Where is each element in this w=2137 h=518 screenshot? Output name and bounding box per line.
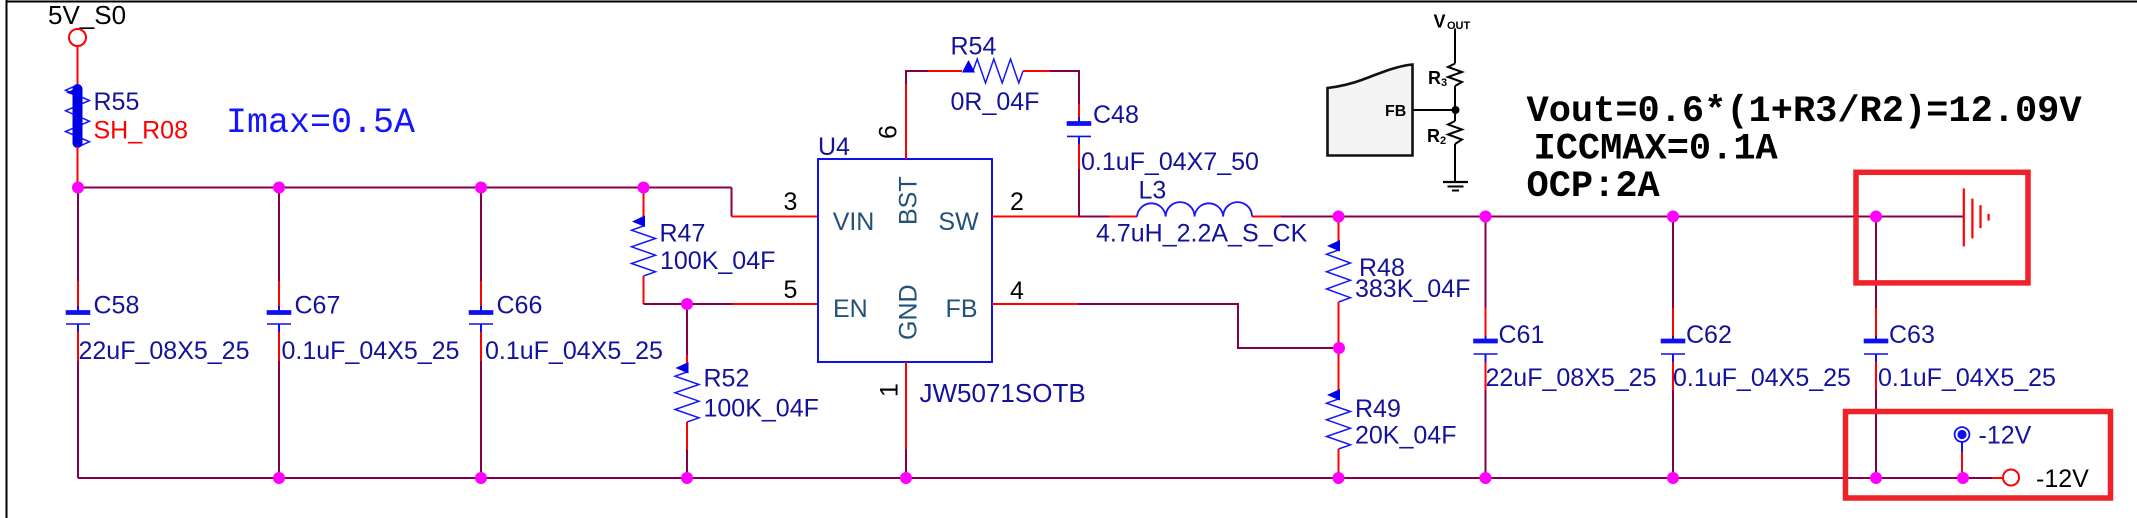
- svg-text:V: V: [1434, 12, 1446, 32]
- svg-text:0.1uF_04X5_25: 0.1uF_04X5_25: [485, 337, 663, 365]
- svg-text:383K_04F: 383K_04F: [1355, 275, 1470, 303]
- svg-text:5: 5: [784, 276, 798, 304]
- svg-text:22uF_08X5_25: 22uF_08X5_25: [1486, 364, 1657, 392]
- svg-text:2: 2: [1440, 135, 1446, 147]
- FB feedback illustration block: [1328, 12, 1471, 191]
- resistor R48: [1327, 217, 1471, 349]
- svg-text:C67: C67: [295, 292, 341, 320]
- resistor R2 (illustration): [1448, 121, 1462, 144]
- wire BST: [906, 71, 962, 159]
- svg-text:0R_04F: 0R_04F: [951, 88, 1040, 116]
- svg-text:Imax=0.5A: Imax=0.5A: [226, 103, 415, 143]
- junction GND pin bottom bus: [900, 472, 912, 484]
- junction R48 SW rail: [1333, 211, 1345, 223]
- svg-text:R55: R55: [94, 88, 140, 116]
- wire: [1050, 71, 1079, 104]
- svg-text:0.1uF_04X5_25: 0.1uF_04X5_25: [1878, 364, 2056, 392]
- svg-text:C61: C61: [1499, 321, 1545, 349]
- junction C61 SW rail: [1480, 211, 1492, 223]
- svg-text:ICCMAX=0.1A: ICCMAX=0.1A: [1534, 129, 1779, 171]
- wire FB: [992, 304, 1339, 348]
- svg-text:Vout=0.6*(1+R3/R2)=12.09V: Vout=0.6*(1+R3/R2)=12.09V: [1527, 91, 2083, 133]
- svg-text:VIN: VIN: [833, 208, 875, 236]
- resistor R54: [951, 33, 1051, 117]
- wire: [1252, 216, 1282, 218]
- svg-text:5V_S0: 5V_S0: [48, 0, 126, 30]
- svg-text:4.7uH_2.2A_S_CK: 4.7uH_2.2A_S_CK: [1096, 220, 1308, 248]
- wire: [731, 188, 733, 217]
- capacitor C62: [1661, 217, 1851, 479]
- wire GND pin1: [905, 362, 907, 449]
- svg-text:FB: FB: [1385, 103, 1406, 120]
- svg-text:R47: R47: [660, 220, 706, 248]
- svg-text:22uF_08X5_25: 22uF_08X5_25: [79, 337, 250, 365]
- svg-text:0.1uF_04X7_50: 0.1uF_04X7_50: [1081, 148, 1259, 176]
- svg-text:R54: R54: [951, 33, 997, 61]
- svg-text:GND: GND: [895, 284, 923, 340]
- red highlight box (-12V ports): [1846, 412, 2111, 499]
- svg-text:C63: C63: [1889, 321, 1935, 349]
- wire SW: [992, 216, 1137, 218]
- junction R52 bottom bus: [681, 472, 693, 484]
- port -12V open circle: [2003, 470, 2019, 486]
- svg-text:C66: C66: [497, 292, 543, 320]
- IC U4 JW5071SOTB: [818, 133, 1086, 408]
- svg-text:100K_04F: 100K_04F: [704, 395, 819, 423]
- svg-text:R: R: [1427, 126, 1440, 146]
- svg-text:6: 6: [875, 125, 903, 139]
- svg-text:3: 3: [784, 188, 798, 216]
- capacitor C63: [1864, 217, 2056, 479]
- capacitor C61: [1473, 217, 1656, 479]
- svg-text:SW: SW: [938, 208, 979, 236]
- inductor L3: [1096, 177, 1308, 248]
- text formula: [1527, 91, 2083, 208]
- wire bottom bus: [78, 477, 1992, 479]
- junction R47 top bus: [638, 182, 650, 194]
- svg-text:L3: L3: [1139, 177, 1167, 205]
- junction R55/C58 top bus: [72, 182, 84, 194]
- svg-text:2: 2: [1010, 188, 1024, 216]
- svg-text:U4: U4: [818, 133, 850, 161]
- junction -12V power bottom bus: [1957, 472, 1969, 484]
- svg-text:1: 1: [876, 383, 904, 397]
- svg-text:4: 4: [1010, 277, 1024, 305]
- svg-text:0.1uF_04X5_25: 0.1uF_04X5_25: [1673, 364, 1851, 392]
- wire: [1992, 477, 2003, 479]
- resistor R3 (illustration): [1448, 64, 1462, 87]
- svg-text:-12V: -12V: [1979, 422, 2032, 450]
- svg-text:BST: BST: [895, 176, 923, 225]
- svg-text:20K_04F: 20K_04F: [1355, 422, 1456, 450]
- wire: [77, 46, 79, 85]
- junction C63 bottom bus: [1870, 472, 1882, 484]
- ground: [1443, 181, 1468, 183]
- junction C61 bottom bus: [1480, 472, 1492, 484]
- capacitor C48: [1067, 101, 1259, 217]
- wire: [77, 147, 79, 188]
- red highlight box (ground): [1856, 172, 2028, 283]
- svg-text:SH_R08: SH_R08: [94, 117, 189, 145]
- svg-text:FB: FB: [946, 295, 978, 323]
- ground bars (sideways): [1964, 188, 1989, 246]
- svg-text:OUT: OUT: [1447, 20, 1471, 32]
- junction FB node R48/R49: [1333, 342, 1345, 354]
- svg-text:3: 3: [1441, 77, 1447, 89]
- svg-text:0.1uF_04X5_25: 0.1uF_04X5_25: [282, 337, 460, 365]
- junction R52 EN wire: [681, 298, 693, 310]
- junction R49 bottom bus: [1333, 472, 1345, 484]
- resistor R55: [66, 85, 189, 147]
- wire SW bus: [1281, 216, 1963, 218]
- svg-text:C48: C48: [1093, 101, 1139, 129]
- junction C67 bottom bus: [273, 472, 285, 484]
- junction C63 SW rail: [1870, 211, 1882, 223]
- wire EN: [644, 303, 732, 305]
- junction C62 SW rail: [1667, 211, 1679, 223]
- svg-text:R: R: [1428, 68, 1441, 88]
- resistor R47: [632, 188, 776, 305]
- junction C66 bottom bus: [475, 472, 487, 484]
- junction C62 bottom bus: [1667, 472, 1679, 484]
- resistor R52: [675, 304, 819, 478]
- svg-text:R52: R52: [704, 365, 750, 393]
- svg-text:R49: R49: [1355, 395, 1401, 423]
- resistor R49: [1327, 348, 1457, 478]
- svg-text:JW5071SOTB: JW5071SOTB: [920, 378, 1086, 408]
- svg-text:C62: C62: [1686, 321, 1732, 349]
- svg-text:100K_04F: 100K_04F: [660, 247, 775, 275]
- capacitor C66: [469, 188, 663, 479]
- svg-text:OCP:2A: OCP:2A: [1527, 166, 1661, 208]
- junction C66 top bus: [475, 182, 487, 194]
- svg-text:C58: C58: [94, 292, 140, 320]
- capacitor C58: [66, 188, 250, 479]
- junction C67 top bus: [273, 182, 285, 194]
- capacitor C67: [267, 188, 460, 479]
- svg-text:-12V: -12V: [2036, 465, 2089, 493]
- svg-text:EN: EN: [833, 295, 868, 323]
- power symbol -12V: [1955, 422, 2032, 479]
- wire pin3: [732, 216, 819, 218]
- wire top bus: [78, 187, 732, 189]
